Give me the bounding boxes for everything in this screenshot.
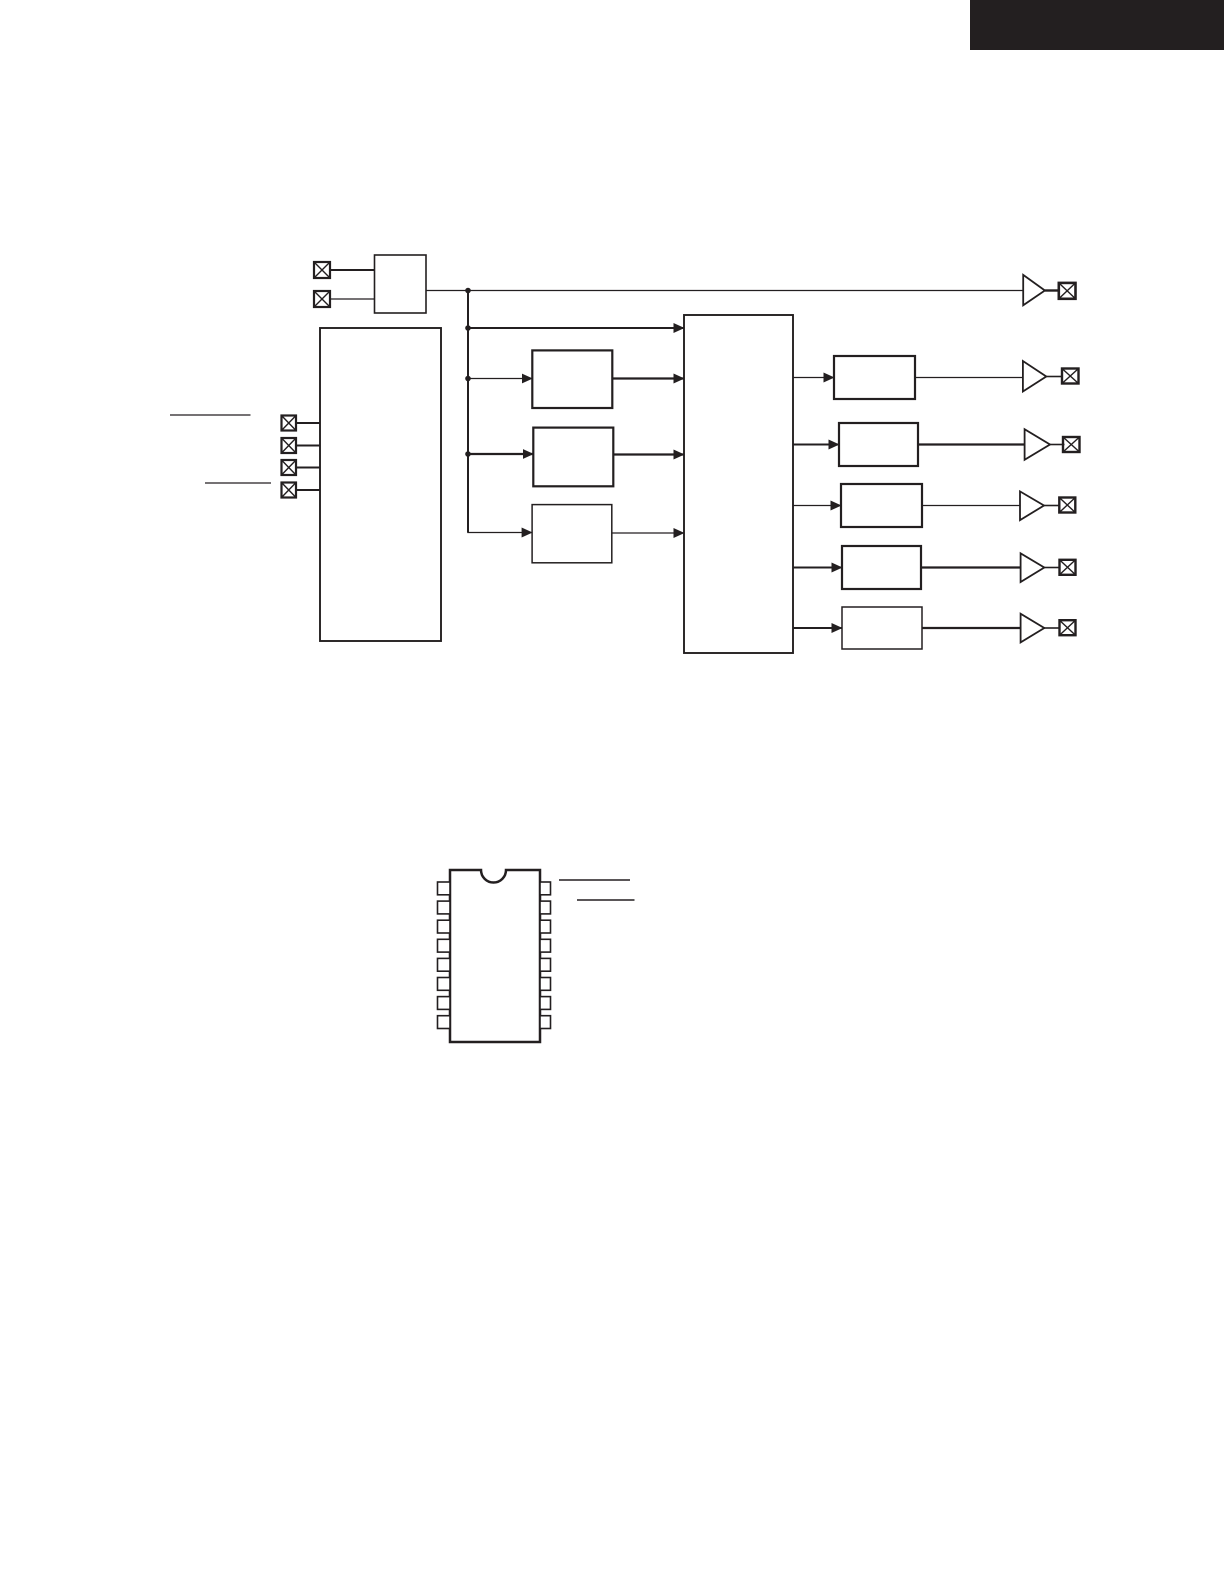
wire divider 3 output bbox=[612, 532, 684, 534]
wire branch 1 into logic block bbox=[468, 327, 684, 329]
wire buffer 4 to terminal X10 bbox=[1044, 505, 1060, 507]
pin 9 bbox=[540, 1016, 551, 1029]
wire X2 to oscillator block bbox=[330, 298, 375, 300]
wire logic to output box 3 bbox=[793, 505, 841, 507]
buffer 6 bbox=[1021, 614, 1045, 643]
pin 11 bbox=[540, 978, 551, 991]
buffer 1 (top) bbox=[1023, 275, 1045, 305]
buffer 3 bbox=[1025, 429, 1050, 460]
output box 2 bbox=[839, 423, 918, 466]
wire output box 5 to buffer 6 bbox=[922, 627, 1021, 629]
IC label leader line 1 bbox=[559, 879, 630, 881]
terminal X7 bbox=[1059, 283, 1076, 299]
terminal X5 bbox=[282, 460, 297, 475]
IC package U1 body with index notch bbox=[450, 870, 540, 1042]
wire branch 4 into divider 3 bbox=[468, 532, 532, 533]
output box 3 bbox=[841, 484, 922, 527]
wire logic to output box 1 bbox=[793, 377, 834, 379]
wire divider 2 output bbox=[613, 453, 684, 455]
wire X6 to control block bbox=[296, 489, 320, 491]
terminal X3 bbox=[282, 416, 297, 431]
terminal X11 bbox=[1060, 560, 1076, 575]
output box 5 bbox=[842, 607, 922, 649]
wire output box 2 to buffer 3 bbox=[918, 443, 1025, 445]
wire output box 1 to buffer 2 bbox=[915, 377, 1023, 379]
pin 14 bbox=[540, 920, 551, 933]
pin 6 bbox=[438, 978, 451, 991]
oscillator block (small top box) bbox=[375, 255, 427, 313]
wire branch 2 into divider 1 bbox=[468, 378, 532, 380]
pin 10 bbox=[540, 997, 551, 1010]
wire X4 to control block bbox=[296, 445, 320, 447]
terminal X4 bbox=[282, 438, 297, 453]
wire output box 3 to buffer 4 bbox=[922, 505, 1020, 507]
pin 7 bbox=[438, 997, 451, 1010]
wire branch 3 into divider 2 bbox=[468, 453, 533, 455]
wire buffer 2 to terminal X8 bbox=[1046, 376, 1062, 378]
terminal X1 (input pin symbol, top) bbox=[314, 262, 330, 278]
pin 2 bbox=[438, 901, 451, 914]
IC label leader line 2 bbox=[577, 899, 635, 901]
node J2 bbox=[465, 325, 471, 331]
pin 5 bbox=[438, 958, 451, 971]
wire buffer 1 to terminal X7 bbox=[1045, 289, 1059, 291]
label leader line 1 bbox=[170, 414, 251, 416]
wire X3 to control block bbox=[296, 422, 320, 424]
pin 15 bbox=[540, 901, 551, 914]
pin 4 bbox=[438, 939, 451, 952]
wire X5 to control block bbox=[296, 467, 320, 469]
pin 3 bbox=[438, 920, 451, 933]
terminal X2 (input pin symbol, second) bbox=[314, 291, 330, 307]
wire vertical clock bus bbox=[467, 291, 469, 533]
wire buffer 5 to terminal X11 bbox=[1044, 567, 1060, 569]
wire divider 1 output bbox=[612, 377, 684, 379]
buffer 2 bbox=[1023, 361, 1046, 392]
header bar bbox=[970, 0, 1224, 50]
node J3 bbox=[465, 376, 471, 382]
buffer 5 bbox=[1021, 553, 1045, 582]
output box 4 bbox=[842, 546, 921, 589]
node J4 bbox=[465, 451, 471, 457]
output box 1 bbox=[834, 356, 915, 399]
logic block (right tall box) bbox=[684, 315, 793, 653]
wire output box 4 to buffer 5 bbox=[921, 566, 1021, 568]
terminal X8 bbox=[1062, 369, 1079, 384]
wire buffer 3 to terminal X9 bbox=[1050, 444, 1065, 446]
wire logic to output box 4 bbox=[793, 567, 842, 569]
terminal X12 bbox=[1060, 620, 1076, 635]
divider 1 box bbox=[532, 350, 612, 408]
pin 1 bbox=[438, 882, 451, 895]
buffer 4 bbox=[1020, 491, 1044, 520]
wire oscillator output to top buffer bbox=[426, 290, 1023, 292]
wire logic to output box 2 bbox=[793, 444, 839, 446]
terminal X6 bbox=[282, 483, 297, 498]
pin 8 bbox=[438, 1016, 451, 1029]
wire X1 to oscillator block bbox=[330, 269, 375, 271]
wire logic to output box 5 bbox=[793, 627, 842, 629]
divider 2 box bbox=[533, 428, 613, 487]
label leader line 2 bbox=[205, 482, 271, 484]
pin 16 bbox=[540, 882, 551, 895]
node J1 (junction on clock line) bbox=[465, 288, 471, 294]
wire buffer 6 to terminal X12 bbox=[1044, 627, 1060, 629]
pin 12 bbox=[540, 958, 551, 971]
terminal X9 bbox=[1063, 437, 1080, 452]
divider 3 box bbox=[532, 505, 612, 563]
pin 13 bbox=[540, 939, 551, 952]
control block (left tall box) bbox=[320, 328, 441, 641]
terminal X10 bbox=[1059, 498, 1075, 513]
